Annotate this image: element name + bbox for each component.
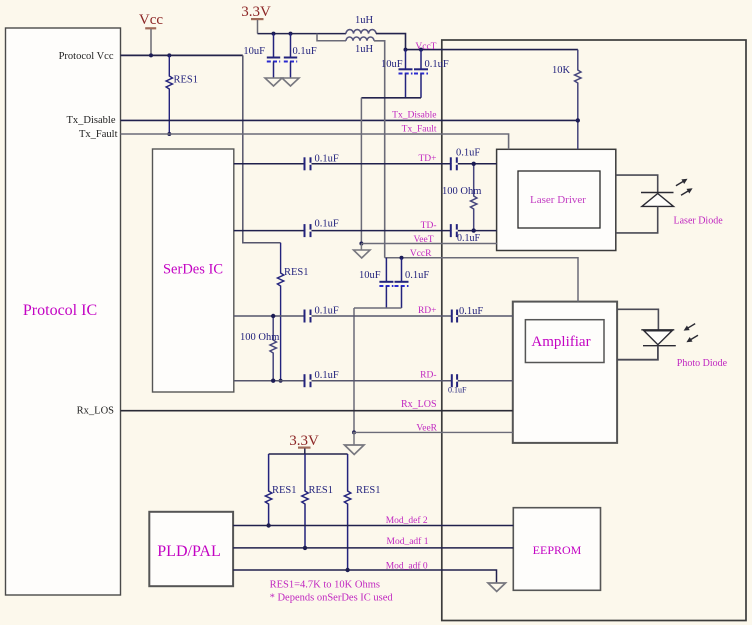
svg-text:VeeT: VeeT xyxy=(413,235,433,245)
svg-text:10uF: 10uF xyxy=(359,270,381,281)
svg-text:VccR: VccR xyxy=(410,249,432,259)
laser diode D1 xyxy=(616,175,674,233)
svg-text:100 Ohm: 100 Ohm xyxy=(240,332,279,343)
capacitor C10 0.1uF (VccR) xyxy=(395,258,430,308)
note depends xyxy=(270,593,394,604)
capacitor C1 10uF (3.3V) xyxy=(243,34,280,78)
svg-text:0.1uF: 0.1uF xyxy=(425,59,449,70)
wire rail down to VeeR xyxy=(352,308,356,434)
svg-text:Mod_adf 0: Mod_adf 0 xyxy=(386,561,428,572)
resistor R8 RES1 Mod_adf0 xyxy=(344,454,380,572)
svg-text:RES1: RES1 xyxy=(356,485,381,496)
note RES1 values xyxy=(270,580,380,591)
capacitor C7 0.1uF TD- left xyxy=(304,219,339,238)
svg-text:1uH: 1uH xyxy=(355,15,374,26)
svg-text:Laser Diode: Laser Diode xyxy=(674,216,724,227)
capacitor C11 0.1uF RD+ left xyxy=(304,306,339,323)
Vcc power symbol xyxy=(139,12,163,29)
wire Vcc to Protocol Vcc xyxy=(150,29,152,55)
wire RD+ net xyxy=(234,315,513,317)
svg-text:RES1: RES1 xyxy=(272,485,297,496)
capacitor C12 0.1uF RD+ right xyxy=(451,306,484,323)
wire Mod_adf 0 net xyxy=(233,570,496,583)
net label RD- xyxy=(420,371,436,381)
resistor R1 RES1 pull-up Tx_Fault xyxy=(166,55,198,136)
svg-text:Rx_LOS: Rx_LOS xyxy=(77,406,115,417)
svg-text:1uH: 1uH xyxy=(355,44,374,55)
svg-text:VccT: VccT xyxy=(415,42,436,52)
wire VccT cap ground rail xyxy=(361,97,421,99)
capacitor C4 0.1uF (VccT) xyxy=(414,50,449,98)
wire L2 out down to VccR xyxy=(374,41,385,258)
svg-text:PLD/PAL: PLD/PAL xyxy=(157,543,220,560)
capacitor C8 0.1uF TD- right xyxy=(450,224,481,244)
svg-text:Tx_Disable: Tx_Disable xyxy=(392,111,436,121)
svg-text:Laser Driver: Laser Driver xyxy=(530,194,586,206)
svg-text:Mod_adf 1: Mod_adf 1 xyxy=(387,536,429,547)
net label TD+ xyxy=(418,154,436,164)
photo diode arrows xyxy=(682,321,699,344)
net label VccR xyxy=(410,249,432,259)
ground VeeR xyxy=(345,432,365,454)
net label RD+ xyxy=(418,306,437,316)
node 3.3V cap junctions xyxy=(272,32,293,36)
photo diode D2 xyxy=(617,309,676,359)
wire rail down to VeeT ground xyxy=(359,98,363,246)
svg-text:0.1uF: 0.1uF xyxy=(405,270,429,281)
wire L1 out to VccT xyxy=(376,34,406,50)
capacitor C3 10uF (VccT) xyxy=(381,50,413,98)
wire Mod_def 2 net xyxy=(233,525,513,527)
PLD/PAL U5 xyxy=(149,512,233,586)
net label Mod_adf 1 xyxy=(387,536,429,547)
wire Protocol Vcc net xyxy=(121,54,243,56)
svg-text:0.1uF: 0.1uF xyxy=(448,386,467,395)
net label VeeT xyxy=(413,235,433,245)
svg-text:0.1uF: 0.1uF xyxy=(315,370,339,381)
3.3V power symbol bottom xyxy=(289,433,319,454)
svg-text:Mod_def 2: Mod_def 2 xyxy=(386,515,428,526)
svg-text:10uF: 10uF xyxy=(243,46,265,57)
wire VccR cap ground rail xyxy=(354,307,402,309)
wire Protocol Vcc vertical drop x=242.8 xyxy=(243,55,281,242)
net label VccT xyxy=(415,42,436,52)
svg-text:RES1: RES1 xyxy=(309,485,334,496)
svg-text:0.1uF: 0.1uF xyxy=(457,233,481,244)
capacitor C13 0.1uF RD- left xyxy=(304,370,339,387)
svg-text:Tx_Fault: Tx_Fault xyxy=(79,129,118,140)
svg-text:SerDes IC: SerDes IC xyxy=(163,262,223,278)
svg-text:* Depends onSerDes IC used: * Depends onSerDes IC used xyxy=(270,593,394,604)
SerDes IC U2 xyxy=(153,149,234,392)
ground under C2 xyxy=(282,78,299,86)
svg-text:EEPROM: EEPROM xyxy=(533,543,582,557)
inductor L2 1uH (bottom) xyxy=(346,37,374,55)
label Laser Diode xyxy=(674,216,724,227)
net label TD- xyxy=(421,221,437,231)
wire Rx_LOS net xyxy=(121,410,513,412)
module boundary box xyxy=(442,40,746,621)
wire VeeT net xyxy=(361,243,497,245)
wire VccR net xyxy=(385,256,578,302)
wire 3.3V bottom rail xyxy=(269,453,348,455)
svg-text:100 Ohm: 100 Ohm xyxy=(442,186,481,197)
svg-text:Protocol IC: Protocol IC xyxy=(23,302,97,319)
ground under C1 xyxy=(265,78,282,86)
svg-text:3.3V: 3.3V xyxy=(241,4,271,20)
resistor R7 RES1 Mod_adf1 xyxy=(302,454,333,550)
svg-text:RD+: RD+ xyxy=(418,306,437,316)
capacitor C2 0.1uF (3.3V) xyxy=(284,34,317,78)
wire Tx_Disable net xyxy=(121,119,578,121)
svg-text:0.1uF: 0.1uF xyxy=(315,306,339,317)
net label Mod_def 2 xyxy=(386,515,428,526)
EEPROM U6 xyxy=(513,508,600,591)
wire TD+ net xyxy=(234,163,497,165)
svg-text:Tx_Fault: Tx_Fault xyxy=(402,125,437,135)
svg-text:Rx_LOS: Rx_LOS xyxy=(401,399,437,410)
svg-text:0.1uF: 0.1uF xyxy=(315,154,339,165)
net label Tx_Fault xyxy=(402,125,437,135)
ground VeeT xyxy=(354,244,371,259)
svg-text:RES1=4.7K to 10K Ohms: RES1=4.7K to 10K Ohms xyxy=(270,580,380,591)
svg-text:VeeR: VeeR xyxy=(416,424,437,434)
svg-text:TD-: TD- xyxy=(421,221,437,231)
svg-text:Protocol Vcc: Protocol Vcc xyxy=(59,51,114,62)
inductor L1 1uH (top) xyxy=(346,15,376,34)
resistor R4 100 Ohm TX xyxy=(442,162,481,233)
laser diode arrows xyxy=(675,176,694,197)
svg-text:0.1uF: 0.1uF xyxy=(315,219,339,230)
resistor R5 10K pull-up xyxy=(552,50,581,150)
ground Mod_adf 0 xyxy=(488,583,506,592)
net label Tx_Disable xyxy=(392,111,436,121)
svg-text:TD+: TD+ xyxy=(418,154,436,164)
wire Mod_adf 1 net xyxy=(233,547,513,549)
svg-text:0.1uF: 0.1uF xyxy=(459,306,483,317)
wire Tx_Fault net xyxy=(121,134,509,149)
resistor R2 RES1 to RD- xyxy=(277,243,308,383)
Amplifier U4 xyxy=(513,302,617,443)
Protocol IC U1 xyxy=(6,28,121,595)
svg-text:10uF: 10uF xyxy=(381,59,403,70)
svg-text:0.1uF: 0.1uF xyxy=(293,46,317,57)
capacitor C5 0.1uF TD+ left xyxy=(304,154,339,171)
capacitor C14 0.1uF RD- right xyxy=(448,374,467,394)
resistor R3 100 Ohm RX xyxy=(240,314,279,383)
wire RD- net xyxy=(234,380,513,382)
svg-text:Tx_Disable: Tx_Disable xyxy=(67,115,116,126)
resistor R6 RES1 Mod_def2 xyxy=(265,454,296,528)
svg-text:RD-: RD- xyxy=(420,371,436,381)
svg-text:0.1uF: 0.1uF xyxy=(456,148,480,159)
svg-text:RES1: RES1 xyxy=(284,267,309,278)
svg-text:Photo Diode: Photo Diode xyxy=(677,358,728,369)
wire VeeR net xyxy=(353,431,513,433)
label Photo Diode xyxy=(677,358,728,369)
svg-text:10K: 10K xyxy=(552,65,571,76)
Laser Driver U3 xyxy=(497,149,616,250)
net label VeeR xyxy=(416,424,437,434)
wire 3.3V rail to inductors xyxy=(258,34,347,41)
net label Mod_adf 0 xyxy=(386,561,428,572)
3.3V power symbol top xyxy=(241,4,271,34)
svg-text:Amplifiar: Amplifiar xyxy=(531,334,590,350)
net label Rx_LOS xyxy=(401,399,437,410)
capacitor C9 10uF (VccR) xyxy=(359,258,393,308)
wire VccT net xyxy=(404,48,578,52)
node Protocol Vcc / Vcc junction xyxy=(149,53,171,57)
wire TD- net xyxy=(234,230,497,232)
capacitor C6 0.1uF TD+ right xyxy=(450,148,481,171)
svg-text:RES1: RES1 xyxy=(174,75,199,86)
svg-text:Vcc: Vcc xyxy=(139,12,163,28)
